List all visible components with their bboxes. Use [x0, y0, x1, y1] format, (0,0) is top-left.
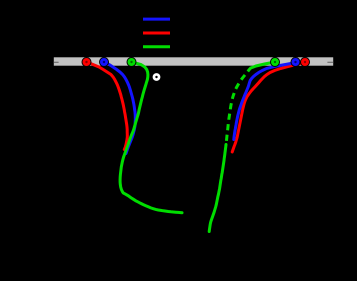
legend line blue: [143, 18, 170, 21]
marker blue right: [291, 58, 300, 67]
blue curve right: [234, 63, 296, 140]
marker red left: [82, 58, 91, 67]
legend line red: [143, 32, 170, 35]
marker red right: [301, 58, 310, 67]
red curve left: [87, 62, 127, 150]
green curve right dashed middle: [226, 72, 248, 146]
red curve right: [232, 63, 305, 153]
green curve right solid top: [248, 62, 275, 72]
green curve left: [120, 62, 182, 213]
marker green left: [127, 58, 136, 67]
dark notch right end: [327, 62, 333, 63]
green curve right solid bottom: [209, 145, 226, 232]
legend line green: [143, 45, 170, 48]
white open marker: [153, 73, 161, 81]
dark notch left end: [54, 62, 59, 63]
blue curve left: [105, 62, 136, 154]
marker blue left: [100, 58, 109, 67]
gray continuum bar: [54, 57, 333, 65]
marker green right: [271, 58, 280, 67]
